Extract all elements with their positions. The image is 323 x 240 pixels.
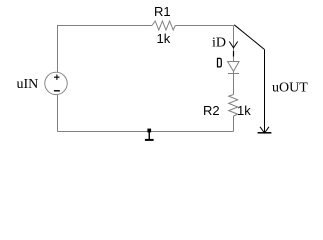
svg-text:1k: 1k xyxy=(237,103,251,118)
diode D triangle xyxy=(228,62,239,72)
wire top horizontal right of R1 xyxy=(175,25,233,27)
ground node square xyxy=(147,129,151,133)
source plus sign xyxy=(54,75,60,80)
uOUT arrow end bar xyxy=(258,132,272,134)
diode D cathode bar xyxy=(228,73,239,75)
source minus sign xyxy=(54,90,60,92)
wire diode to R2 xyxy=(233,72,235,95)
current arrow iD tail dash xyxy=(233,51,235,57)
resistor R1 xyxy=(152,21,175,30)
svg-text:R1: R1 xyxy=(154,4,171,19)
svg-text:R2: R2 xyxy=(203,103,220,118)
ground bar xyxy=(145,139,154,141)
svg-text:1k: 1k xyxy=(157,31,171,46)
svg-text:uIN: uIN xyxy=(17,77,39,92)
label D xyxy=(218,58,222,67)
wire bottom horizontal xyxy=(58,131,234,133)
wire right vertical upper xyxy=(233,26,235,62)
voltage source uIN circle xyxy=(45,72,67,94)
ground stub xyxy=(148,132,150,139)
uOUT arrow diagonal xyxy=(234,25,264,50)
wire R2 to bottom xyxy=(233,116,235,132)
wire left vertical upper xyxy=(57,25,59,72)
svg-text:uOUT: uOUT xyxy=(272,81,308,96)
current arrow iD head xyxy=(229,42,237,48)
svg-text:iD: iD xyxy=(212,35,226,50)
resistor R2 xyxy=(229,95,238,117)
wire left vertical lower xyxy=(57,95,59,132)
uOUT arrow vertical xyxy=(264,50,266,133)
wire top horizontal left of R1 xyxy=(58,25,153,27)
uOUT arrowhead xyxy=(260,127,269,133)
